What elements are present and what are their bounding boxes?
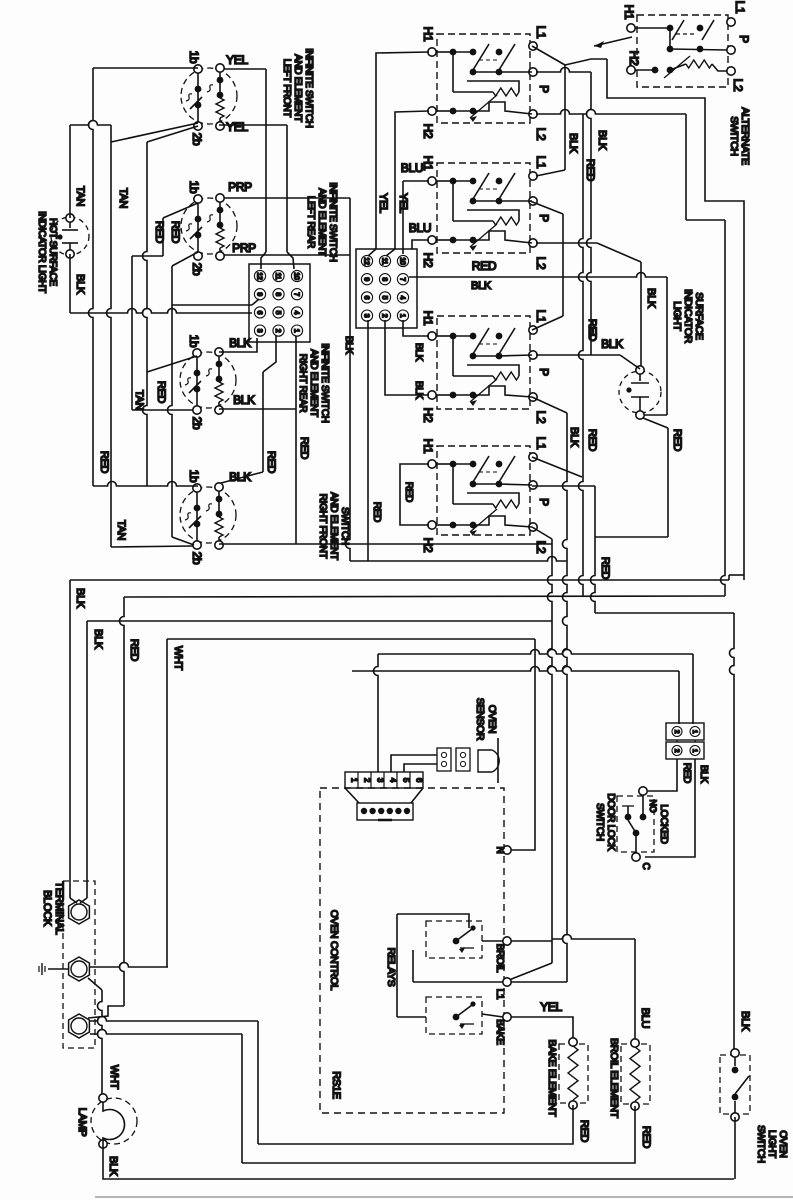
svg-text:11: 11 bbox=[381, 258, 388, 265]
svg-text:YEL: YEL bbox=[397, 193, 409, 213]
svg-text:YEL: YEL bbox=[377, 193, 389, 213]
svg-text:PRP: PRP bbox=[228, 180, 252, 194]
svg-text:L2: L2 bbox=[534, 257, 548, 270]
svg-text:P: P bbox=[537, 214, 551, 222]
svg-text:TAN: TAN bbox=[115, 520, 127, 541]
svg-text:2b: 2b bbox=[190, 263, 204, 276]
svg-text:LOCKED: LOCKED bbox=[658, 804, 669, 843]
svg-text:TAN: TAN bbox=[117, 188, 129, 209]
svg-text:INFINITE SWITCH: INFINITE SWITCH bbox=[303, 48, 314, 127]
svg-text:RIGHT FRONT: RIGHT FRONT bbox=[317, 494, 328, 559]
svg-text:BLK: BLK bbox=[739, 1011, 751, 1032]
svg-text:L1: L1 bbox=[534, 156, 548, 169]
svg-text:BLK: BLK bbox=[698, 765, 709, 784]
svg-text:BLOCK: BLOCK bbox=[41, 890, 53, 927]
svg-text:YEL: YEL bbox=[226, 53, 248, 67]
svg-text:BLK: BLK bbox=[645, 288, 657, 309]
svg-text:RS1E: RS1E bbox=[330, 1071, 342, 1099]
svg-text:H2: H2 bbox=[421, 538, 435, 553]
svg-text:12: 12 bbox=[363, 257, 370, 265]
svg-text:H1: H1 bbox=[622, 5, 636, 20]
svg-text:TAN: TAN bbox=[74, 186, 86, 207]
svg-text:AND ELEMENT: AND ELEMENT bbox=[328, 492, 339, 560]
svg-text:2b: 2b bbox=[190, 417, 204, 430]
svg-text:3: 3 bbox=[256, 329, 263, 333]
svg-text:BLK: BLK bbox=[74, 588, 86, 609]
svg-text:9: 9 bbox=[363, 277, 370, 281]
svg-text:LEFT FRONT: LEFT FRONT bbox=[281, 59, 292, 118]
svg-text:5: 5 bbox=[274, 311, 281, 315]
svg-text:5: 5 bbox=[381, 296, 388, 300]
svg-text:H1: H1 bbox=[421, 439, 435, 454]
svg-text:H1: H1 bbox=[421, 27, 435, 42]
svg-text:RED: RED bbox=[128, 639, 140, 662]
svg-text:BLK: BLK bbox=[343, 336, 354, 355]
svg-text:C: C bbox=[640, 863, 651, 870]
svg-text:10: 10 bbox=[293, 272, 300, 280]
svg-text:BLU: BLU bbox=[639, 1008, 651, 1029]
svg-text:RED: RED bbox=[155, 381, 167, 404]
svg-text:BLK: BLK bbox=[233, 393, 255, 407]
svg-text:1b: 1b bbox=[187, 470, 201, 483]
svg-text:11: 11 bbox=[274, 273, 281, 280]
svg-text:1b: 1b bbox=[187, 335, 201, 348]
svg-text:6: 6 bbox=[256, 311, 263, 315]
svg-text:RED: RED bbox=[640, 1126, 652, 1149]
svg-text:L2: L2 bbox=[534, 541, 548, 554]
svg-text:P: P bbox=[537, 368, 551, 376]
svg-text:INDICATOR LIGHT: INDICATOR LIGHT bbox=[36, 211, 47, 293]
svg-text:BLK: BLK bbox=[74, 274, 86, 295]
svg-text:RED: RED bbox=[586, 319, 598, 342]
svg-text:H2: H2 bbox=[627, 51, 641, 66]
svg-text:BAKE ELEMENT: BAKE ELEMENT bbox=[546, 1040, 558, 1118]
svg-text:YEL: YEL bbox=[226, 120, 248, 134]
svg-text:BLK: BLK bbox=[413, 343, 424, 362]
svg-text:SWITCH: SWITCH bbox=[594, 803, 605, 841]
svg-text:RED: RED bbox=[681, 763, 692, 783]
svg-text:DOOR LOCK: DOOR LOCK bbox=[605, 793, 616, 851]
svg-text:OVEN CONTROL: OVEN CONTROL bbox=[328, 910, 340, 991]
svg-text:H1: H1 bbox=[421, 311, 435, 326]
svg-text:2b: 2b bbox=[190, 552, 204, 565]
svg-text:OVEN: OVEN bbox=[777, 1130, 788, 1157]
svg-text:BLK: BLK bbox=[92, 629, 104, 650]
svg-text:AND ELEMENT: AND ELEMENT bbox=[292, 54, 303, 122]
svg-text:BLU: BLU bbox=[409, 221, 431, 235]
svg-text:L2: L2 bbox=[534, 128, 548, 141]
svg-text:BLK: BLK bbox=[567, 133, 579, 154]
svg-text:BLK: BLK bbox=[601, 337, 623, 351]
svg-text:LIGHT: LIGHT bbox=[671, 301, 683, 331]
svg-text:BROIL ELEMENT: BROIL ELEMENT bbox=[608, 1038, 620, 1119]
svg-text:BLK: BLK bbox=[596, 130, 608, 151]
svg-text:SWITCH: SWITCH bbox=[728, 116, 740, 156]
svg-text:10: 10 bbox=[399, 257, 406, 265]
svg-text:BLK: BLK bbox=[229, 470, 251, 484]
svg-text:4: 4 bbox=[293, 311, 300, 315]
svg-text:BAKE: BAKE bbox=[494, 1019, 505, 1045]
svg-text:INFINITE SWITCH: INFINITE SWITCH bbox=[327, 182, 338, 261]
svg-text:3: 3 bbox=[363, 314, 370, 318]
svg-text:WHT: WHT bbox=[108, 1065, 120, 1090]
svg-text:TERMINAL: TERMINAL bbox=[53, 881, 65, 934]
svg-text:LEFT REAR: LEFT REAR bbox=[305, 196, 316, 248]
svg-text:H2: H2 bbox=[421, 124, 435, 139]
svg-text:LAMP: LAMP bbox=[76, 1108, 88, 1137]
svg-text:2: 2 bbox=[274, 329, 281, 333]
svg-text:RED: RED bbox=[169, 221, 181, 244]
svg-text:L2: L2 bbox=[534, 411, 548, 424]
svg-text:AND ELEMENT: AND ELEMENT bbox=[308, 349, 319, 417]
svg-text:NO: NO bbox=[648, 800, 658, 813]
svg-text:P: P bbox=[537, 498, 551, 506]
svg-text:4: 4 bbox=[399, 296, 406, 300]
svg-text:L2: L2 bbox=[731, 79, 745, 92]
svg-text:SENSOR: SENSOR bbox=[474, 698, 486, 741]
svg-text:BLU: BLU bbox=[401, 161, 423, 175]
svg-text:RED: RED bbox=[584, 159, 596, 182]
svg-text:RED: RED bbox=[403, 482, 414, 502]
svg-text:RED: RED bbox=[98, 451, 110, 474]
svg-text:H2: H2 bbox=[421, 408, 435, 423]
svg-text:RED: RED bbox=[265, 451, 277, 474]
svg-text:7: 7 bbox=[293, 292, 300, 296]
svg-text:12: 12 bbox=[256, 272, 263, 280]
svg-text:BLK: BLK bbox=[568, 427, 580, 448]
svg-text:L1: L1 bbox=[494, 989, 505, 1000]
svg-text:6: 6 bbox=[363, 296, 370, 300]
svg-text:1b: 1b bbox=[187, 51, 201, 64]
svg-text:7: 7 bbox=[399, 277, 406, 281]
svg-text:RED: RED bbox=[671, 429, 683, 452]
svg-text:BLK: BLK bbox=[107, 1156, 119, 1177]
svg-text:L1: L1 bbox=[534, 310, 548, 323]
svg-text:8: 8 bbox=[381, 277, 388, 281]
svg-text:INFINITE SWITCH: INFINITE SWITCH bbox=[319, 343, 330, 422]
svg-text:RIGHT REAR: RIGHT REAR bbox=[297, 354, 308, 413]
svg-text:1b: 1b bbox=[187, 181, 201, 194]
svg-text:PRP: PRP bbox=[232, 241, 256, 255]
svg-text:RED: RED bbox=[371, 502, 382, 522]
svg-text:HOT SURFACE: HOT SURFACE bbox=[47, 218, 58, 286]
svg-text:RED: RED bbox=[153, 221, 165, 244]
svg-text:WHT: WHT bbox=[172, 646, 184, 671]
svg-text:RED: RED bbox=[298, 437, 310, 460]
svg-text:RED: RED bbox=[578, 1120, 590, 1143]
svg-text:L1: L1 bbox=[534, 26, 548, 39]
svg-text:YEL: YEL bbox=[540, 1000, 562, 1014]
svg-text:BROIL: BROIL bbox=[494, 944, 505, 973]
svg-text:SWITCH: SWITCH bbox=[755, 1125, 766, 1163]
svg-text:RED: RED bbox=[472, 259, 497, 273]
svg-text:H2: H2 bbox=[421, 253, 435, 268]
svg-text:P: P bbox=[737, 35, 751, 43]
svg-text:BLK: BLK bbox=[413, 381, 424, 400]
svg-text:2b: 2b bbox=[190, 133, 204, 146]
svg-text:BLK: BLK bbox=[471, 280, 492, 292]
svg-text:L1: L1 bbox=[733, 1, 747, 14]
svg-text:P: P bbox=[537, 85, 551, 93]
svg-text:RED: RED bbox=[599, 557, 611, 580]
svg-text:RELAYS: RELAYS bbox=[385, 948, 397, 987]
svg-text:N: N bbox=[494, 847, 505, 854]
svg-text:2: 2 bbox=[381, 314, 388, 318]
svg-text:LIGHT: LIGHT bbox=[766, 1130, 777, 1158]
svg-text:BLK: BLK bbox=[229, 336, 251, 350]
svg-text:1: 1 bbox=[399, 314, 406, 318]
svg-text:8: 8 bbox=[274, 292, 281, 296]
svg-text:OVEN: OVEN bbox=[486, 705, 498, 734]
svg-text:9: 9 bbox=[256, 292, 263, 296]
svg-text:1: 1 bbox=[293, 329, 300, 333]
svg-text:RED: RED bbox=[586, 429, 598, 452]
svg-text:L1: L1 bbox=[534, 437, 548, 450]
